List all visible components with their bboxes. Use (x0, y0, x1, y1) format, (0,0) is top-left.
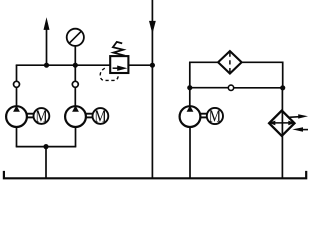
wire: filter inlet (top-left) (189, 61, 218, 63)
wire: bypass line left segment (190, 87, 229, 89)
test point circle above pump P1 (14, 81, 20, 87)
wire: pump1 suction drop (16, 127, 18, 147)
wire: filter outlet (top-right) (242, 61, 283, 63)
bypass orifice circle (228, 85, 233, 90)
motor M2 (93, 108, 109, 124)
wire: left pressure bus (16, 64, 111, 66)
node: bus / arrow junction (44, 63, 49, 68)
wire: suction header to tank (45, 147, 47, 179)
flow arrow (downward, on drain line) (149, 21, 156, 34)
wire: central drain line (top to tank) (151, 0, 153, 178)
filter F1 (diamond with dashed element) (218, 51, 242, 73)
wire: pump2 riser lower (74, 87, 76, 106)
wire: pump2 riser upper (74, 65, 76, 81)
wire: pump2 suction drop (75, 127, 77, 147)
pressure gauge (67, 29, 84, 66)
pump P3 (180, 106, 201, 128)
motor M1 (34, 108, 50, 124)
motor M3 (207, 108, 223, 124)
shaft coupling P3-M3 (201, 114, 208, 118)
relief valve pilot line (dashed) (100, 68, 118, 80)
node: bus / gauge / pump2 junction (73, 63, 78, 68)
flow arrow (upward, vent line) (44, 17, 50, 65)
coolant flow arrow (out, upper right) (289, 114, 308, 118)
pump P1 (6, 106, 27, 128)
relief valve spring (113, 42, 123, 56)
wire: pump1 riser lower (16, 87, 18, 106)
wire: bypass line right segment (234, 87, 283, 89)
node: bypass left junction (187, 85, 192, 90)
wire: pump1 riser upper (bus corner down to test point) (16, 65, 18, 81)
shaft coupling P1-M1 (27, 114, 34, 118)
cooler / heat exchanger (269, 111, 295, 136)
node: drain line junction (150, 63, 155, 68)
wire: pump3 drop to tank (189, 127, 191, 178)
wire: filter branch left vertical (189, 62, 191, 87)
node: bypass right junction (280, 85, 285, 90)
coolant flow arrow (in, lower right) (292, 127, 308, 132)
pump P2 (65, 106, 86, 128)
wire: cooler riser and drop to tank (281, 88, 283, 178)
test point circle above pump P2 (72, 81, 78, 87)
relief valve body (110, 56, 128, 73)
wire: pump3 riser (189, 88, 191, 107)
node: suction header junction (43, 144, 48, 149)
wire: suction header (16, 146, 77, 148)
shaft coupling P2-M2 (86, 114, 93, 118)
wire: right vertical (filter outlet down) (282, 62, 284, 89)
reservoir (tank) line (4, 171, 306, 178)
wire: relief valve outlet to drain line (128, 64, 152, 66)
